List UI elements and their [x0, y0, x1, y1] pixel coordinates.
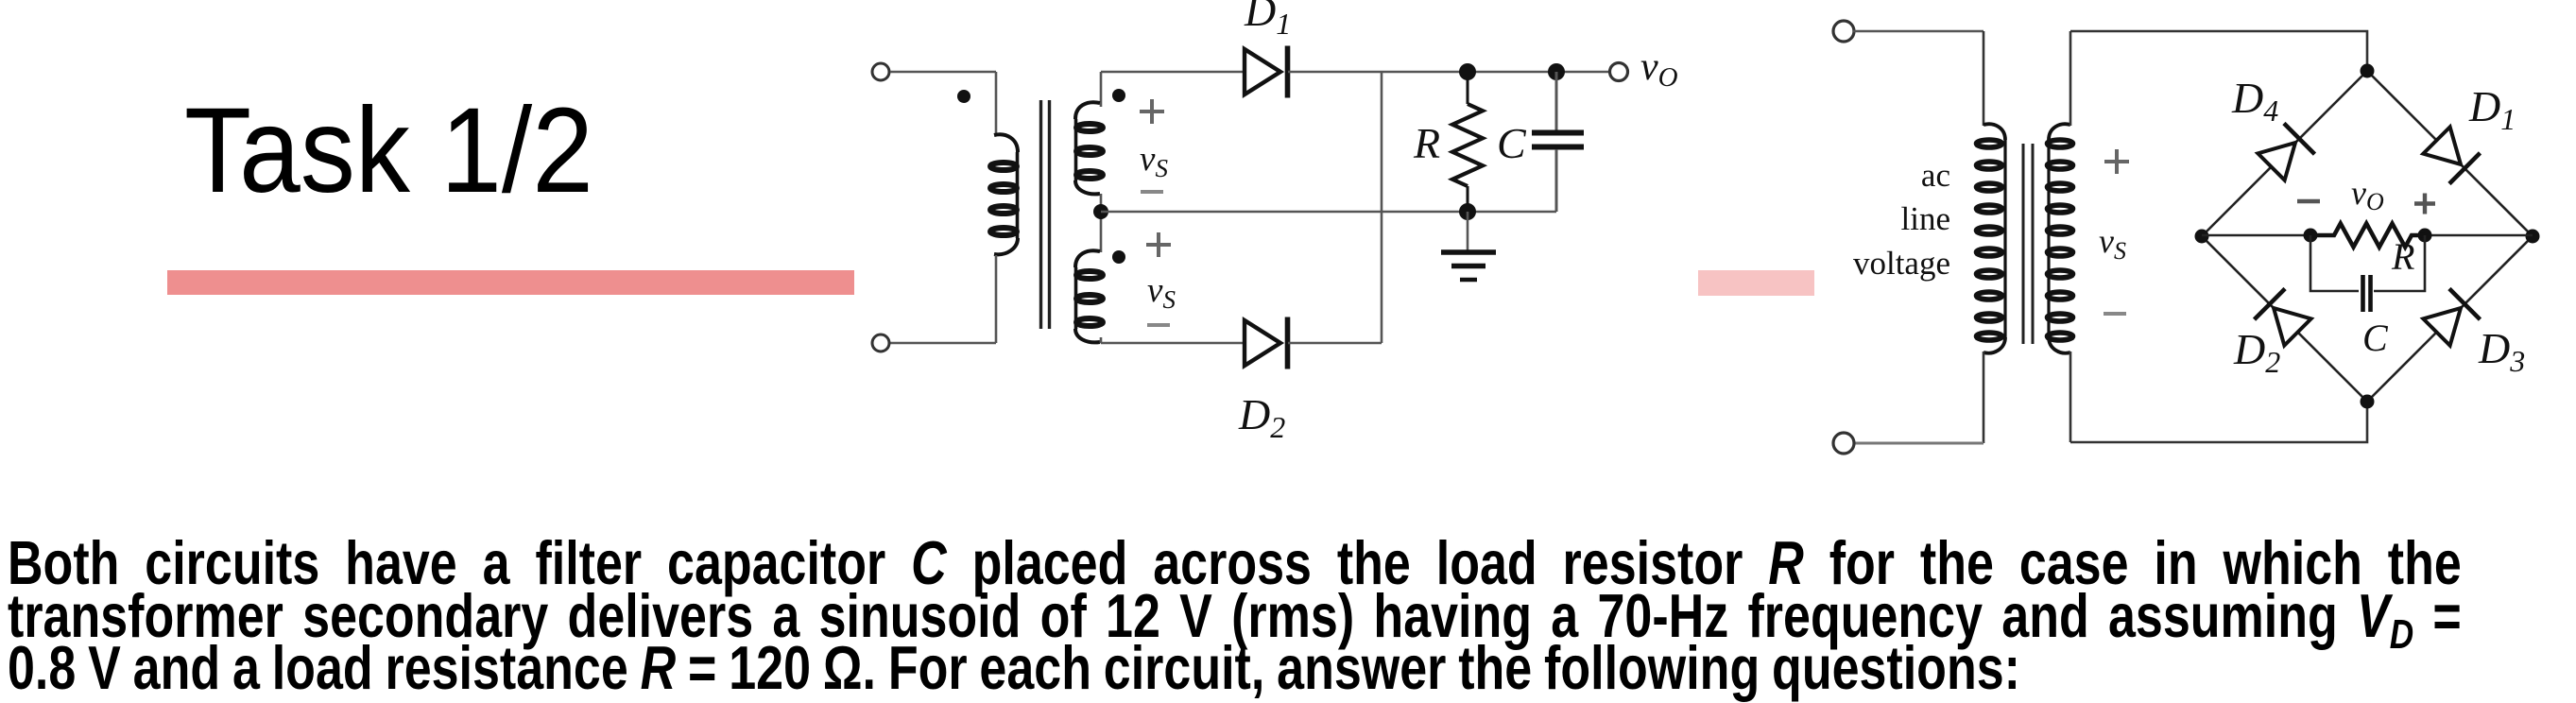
wire center tap to load return — [1101, 211, 1556, 214]
resistor R (bridge) — [2310, 224, 2425, 248]
node R top — [1459, 63, 1476, 80]
svg-text:line: line — [1901, 200, 1950, 237]
minus label secondary top — [1141, 190, 1163, 194]
wire bottom-left input — [890, 342, 996, 345]
diode D1 — [1245, 46, 1288, 98]
svg-text:D1: D1 — [2468, 82, 2516, 136]
wire riser D2 to output — [1381, 72, 1383, 343]
body paragraph — [8, 537, 2462, 694]
transformer T1 primary winding — [990, 134, 1018, 254]
transformer T2 primary winding — [1977, 124, 2006, 352]
minus label output — [2297, 199, 2320, 203]
node bridge left — [2195, 230, 2209, 244]
terminal bottom-left input — [872, 334, 889, 351]
node bridge right — [2526, 230, 2540, 244]
svg-text:D4: D4 — [2231, 74, 2278, 128]
terminal ac top — [1833, 21, 1854, 42]
red accent bar (left segment) — [167, 270, 854, 295]
svg-text:C: C — [2362, 317, 2389, 359]
node bridge bottom — [2361, 395, 2375, 409]
svg-text:vS: vS — [1140, 140, 1168, 182]
terminal vo output — [1610, 63, 1628, 81]
wire D1 to output node — [1288, 71, 1610, 74]
wire ac top — [1853, 30, 1984, 33]
svg-text:R: R — [1413, 119, 1440, 167]
resistor R — [1452, 72, 1483, 212]
terminal top-left input — [872, 63, 889, 80]
svg-text:vS: vS — [2099, 222, 2126, 265]
slide title — [184, 91, 593, 212]
wire bridge edge top-left — [2202, 71, 2367, 236]
terminal ac bottom — [1833, 433, 1854, 454]
wire secondary top to bridge — [2070, 31, 2367, 71]
wire secondary rail bottom (bridge) — [2069, 351, 2072, 442]
wire bridge edge bottom-right — [2367, 236, 2533, 402]
wire bridge edge top-right — [2367, 71, 2533, 236]
node center tap — [1093, 204, 1108, 219]
transformer T1 secondary winding top half — [1075, 102, 1103, 194]
wire bridge edge bottom-left — [2202, 236, 2367, 402]
node output left — [2304, 229, 2318, 243]
node R bottom — [1459, 203, 1476, 220]
polarity dot secondary bottom — [1112, 250, 1125, 264]
plus label secondary (bridge) — [2104, 149, 2129, 174]
svg-text:D1: D1 — [1244, 0, 1291, 41]
svg-text:vO: vO — [1640, 45, 1678, 93]
red accent bar (right light segment) — [1698, 270, 1814, 296]
svg-text:voltage: voltage — [1853, 245, 1950, 282]
wire secondary rail top — [1100, 72, 1103, 107]
wire D2 to riser — [1288, 342, 1382, 345]
svg-text:C: C — [1497, 119, 1527, 167]
minus label secondary bottom — [1147, 323, 1170, 327]
diode D3 (bridge) — [2421, 289, 2480, 348]
wire primary rail bottom — [995, 255, 998, 343]
minus label secondary (bridge) — [2104, 312, 2126, 316]
wire secondary rail top (bridge) — [2069, 31, 2072, 126]
svg-text:D3: D3 — [2478, 324, 2525, 378]
polarity dot secondary top — [1112, 89, 1125, 102]
svg-text:R: R — [2391, 235, 2414, 278]
svg-text:vS: vS — [1147, 271, 1176, 314]
wire bridge output rail — [2202, 234, 2533, 237]
wire primary rail top — [995, 72, 998, 136]
svg-text:vO: vO — [2351, 174, 2384, 215]
svg-text:D2: D2 — [2233, 325, 2280, 379]
diode D2 (bridge) — [2255, 289, 2313, 348]
plus label secondary top — [1140, 99, 1164, 124]
transformer T1 core — [1041, 100, 1050, 329]
wire ground stem — [1467, 212, 1469, 251]
diode D1 (bridge) — [2421, 125, 2480, 183]
svg-text:ac: ac — [1921, 157, 1950, 194]
wire top-left input — [890, 71, 996, 74]
transformer T1 secondary winding bottom half — [1075, 250, 1103, 342]
node bridge top — [2361, 64, 2375, 78]
plus label secondary bottom — [1146, 232, 1171, 257]
wire secondary bottom to D2 — [1101, 342, 1244, 345]
svg-text:D2: D2 — [1238, 390, 1285, 444]
diode D4 — [2256, 124, 2314, 182]
wire secondary bottom to bridge — [2070, 402, 2367, 442]
wire ac bottom — [1853, 442, 1984, 445]
transformer T2 secondary winding — [2048, 124, 2073, 352]
transformer T2 core — [2023, 144, 2033, 344]
wire secondary top to D1 — [1101, 71, 1244, 74]
wire primary rail bottom (bridge) — [1983, 351, 1985, 443]
diode D2 — [1245, 317, 1288, 369]
wire secondary rail middle — [1100, 194, 1103, 252]
capacitor C (bridge) — [2310, 235, 2425, 312]
wire secondary rail bottom — [1100, 337, 1103, 343]
node C top — [1548, 63, 1565, 80]
capacitor C — [1532, 72, 1584, 212]
plus label output — [2414, 194, 2435, 214]
node output right — [2418, 229, 2432, 243]
wire primary rail top (bridge) — [1983, 31, 1985, 126]
ground — [1441, 252, 1496, 280]
polarity dot primary — [957, 90, 970, 103]
